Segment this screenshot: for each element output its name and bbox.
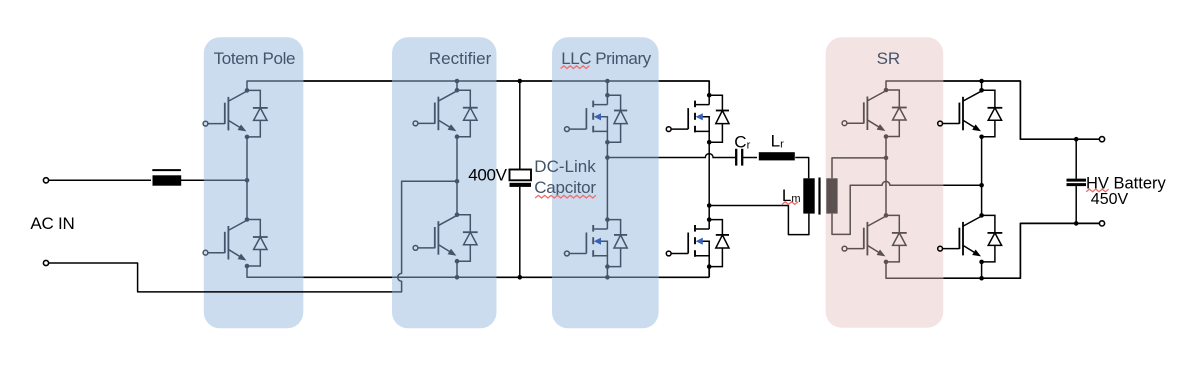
node output leg mid junction: [979, 183, 984, 188]
wire rectifier leg bottom stub: [456, 261, 458, 277]
wire top rail slate segment box3: [552, 80, 659, 82]
capacitor HV battery leg top: [1075, 139, 1077, 178]
wire bottom rail slate segment box2: [392, 276, 497, 278]
squiggle under Capcitor: [535, 195, 596, 198]
node totem mid junction: [245, 178, 250, 183]
capacitor HV battery plate 2: [1067, 183, 1087, 186]
stage box LLC Primary: [552, 37, 659, 328]
wire choke to totem mid: [181, 179, 247, 181]
node battery terminal minus: [1099, 221, 1104, 226]
transistor Q10 SR bottom IGBT: [842, 213, 907, 264]
svg-text:450V: 450V: [1091, 191, 1129, 208]
squiggle under Lm: [782, 202, 798, 205]
svg-text:400V: 400V: [468, 166, 507, 185]
node rectifier top rail junction: [455, 79, 460, 84]
transistor Q5 LLC left top MOSFET: [565, 93, 628, 145]
node rectifier bottom rail junction: [455, 275, 460, 280]
node rectifier mid junction: [455, 179, 460, 184]
svg-text:Cr: Cr: [734, 132, 750, 151]
wire Cr to Lr: [743, 157, 757, 159]
capacitor HV battery plate 1: [1067, 179, 1087, 182]
node battery bottom junction: [1074, 221, 1079, 226]
wire rectifier leg top stub: [456, 81, 458, 90]
wire LLC right mid to transformer bottom: [709, 206, 809, 235]
node LLC right mid junction: [707, 203, 712, 208]
transistor Q1 totem top IGBT: [203, 88, 268, 139]
stage box Totem Pole: [204, 37, 303, 328]
stage box Rectifier: [392, 37, 497, 328]
wire output leg bottom stub: [981, 262, 983, 278]
transistor Q8 LLC right bottom MOSFET: [666, 217, 729, 269]
wire secondary bottom to right leg mid brown part with hop over SR leg: [832, 181, 943, 234]
capacitor Cr plate 2: [741, 149, 743, 166]
wire choke to totem mid slate part: [204, 179, 247, 181]
svg-text:Rectifier: Rectifier: [429, 49, 492, 68]
node LLC left top rail junction: [605, 79, 610, 84]
node AC terminal L1: [43, 178, 48, 183]
node battery terminal plus: [1099, 137, 1104, 142]
wire totem leg segments: [246, 137, 248, 220]
wire AC return slate part with hop over bottom rail: [392, 181, 457, 292]
wire AC return black part: [49, 263, 392, 292]
wire secondary top to SR mid: [832, 158, 886, 178]
wire AC line top: [49, 179, 151, 181]
transistor Q2 totem bottom IGBT: [203, 217, 268, 268]
wire top rail secondary black segment: [943, 81, 1099, 139]
wire LLC right leg mid segment: [708, 142, 710, 219]
capacitor Cr plate 1: [735, 149, 737, 166]
wire LLC mid to Cr slate part: [607, 157, 658, 159]
svg-text:LLC Primary: LLC Primary: [561, 49, 651, 68]
transformer secondary winding: [826, 178, 837, 213]
transistor Q7 LLC right top MOSFET: [666, 93, 729, 145]
svg-text:SR: SR: [877, 49, 901, 68]
wire rectifier leg segments: [456, 137, 458, 215]
wire output leg top stub: [981, 81, 983, 90]
capacitor HV battery leg bottom: [1075, 186, 1077, 223]
wire SR leg segments: [885, 137, 887, 216]
wire LLC left leg top stub: [606, 81, 608, 95]
capacitor DC-link bottom plate: [510, 183, 532, 187]
stage box SR: [826, 37, 944, 327]
wire bottom rail slate segment box1: [247, 266, 303, 277]
svg-text:AC IN: AC IN: [30, 214, 74, 233]
wire LLC mid to Cr black part with hop over right leg: [659, 154, 736, 158]
wire top rail slate segment box1: [247, 81, 303, 90]
node output leg top rail junction: [979, 79, 984, 84]
wire LLC left leg mid segment: [606, 142, 608, 219]
svg-text:DC-Link: DC-Link: [534, 157, 596, 176]
transistor Q9 SR top IGBT: [842, 88, 907, 139]
wire LLC left leg bottom stub: [606, 267, 608, 278]
wire top rail slate segment box2: [392, 80, 497, 82]
squiggle under LLC: [561, 66, 590, 69]
wire Lr to transformer top: [795, 158, 809, 179]
wire DC-link cap leg top: [519, 81, 521, 170]
svg-text:HV Battery: HV Battery: [1086, 174, 1167, 192]
transformer primary winding: [803, 178, 814, 213]
transistor Q3 rectifier top IGBT: [413, 88, 478, 139]
inductor AC choke body: [153, 175, 182, 185]
node AC terminal L2: [43, 260, 48, 265]
wire output leg segments: [981, 137, 983, 216]
wire bottom rail primary black segments: [303, 267, 709, 278]
inductor Lr body: [759, 152, 795, 160]
transistor Q11 output top IGBT: [938, 88, 1003, 139]
svg-text:Lr: Lr: [771, 132, 784, 151]
transistor Q4 rectifier bottom IGBT: [413, 212, 478, 263]
wire bottom rail brown segment SR: [886, 262, 943, 278]
node DC-link top rail junction: [518, 79, 523, 84]
transistor Q6 LLC left bottom MOSFET: [565, 217, 628, 269]
wire DC-link cap leg bottom: [519, 187, 521, 277]
node battery top junction: [1074, 137, 1079, 142]
node LLC left mid junction: [605, 155, 610, 160]
capacitor DC-link top plate: [510, 170, 532, 181]
wire bottom rail secondary black segment: [943, 223, 1099, 278]
squiggle under HV: [1086, 189, 1108, 192]
node output leg bottom rail junction: [979, 276, 984, 281]
wire top rail primary black segments: [303, 81, 709, 95]
svg-text:Capcitor: Capcitor: [534, 178, 596, 197]
wire top rail brown segment SR: [886, 81, 943, 90]
svg-text:Totem Pole: Totem Pole: [214, 49, 296, 68]
transistor Q12 output bottom IGBT: [938, 213, 1003, 264]
node DC-link bottom rail junction: [518, 275, 523, 280]
wire bottom rail slate segment box3: [552, 276, 659, 278]
node LLC left bottom rail junction: [605, 275, 610, 280]
wire secondary bottom to right leg mid black part: [943, 184, 981, 186]
inductor AC choke core line: [152, 169, 181, 171]
transformer core line: [818, 178, 820, 215]
node SR mid junction: [884, 156, 889, 161]
